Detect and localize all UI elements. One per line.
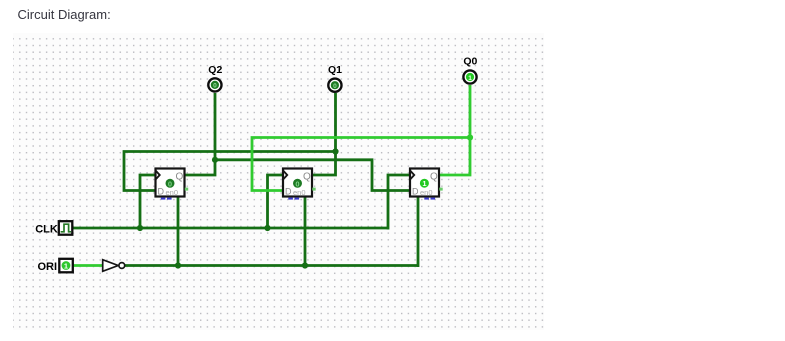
flip-flop U3 unconnected bottom pins: [424, 198, 435, 200]
wire FF3 Q to FF2 D: [252, 138, 470, 191]
circuit canvas background: [13, 33, 544, 330]
svg-text:ORI: ORI: [38, 261, 58, 273]
flip-flop U2 unconnected bottom pins: [288, 198, 299, 200]
svg-text:1: 1: [64, 262, 68, 271]
flip-flop U1 Qbar stub: [185, 188, 188, 191]
probe Q0: [463, 70, 476, 83]
probe Q0 label: [463, 56, 477, 68]
wire FF2 Q to FF1 D: [124, 152, 336, 191]
svg-text:D: D: [285, 187, 292, 197]
svg-text:Q1: Q1: [328, 64, 342, 76]
wire FF2 Q to Q1 probe: [313, 93, 336, 175]
svg-text:Q2: Q2: [208, 64, 222, 76]
svg-text:1: 1: [468, 75, 472, 82]
wire CLK horizontal: [73, 227, 388, 230]
svg-text:D: D: [412, 187, 419, 197]
wire NOT output horizontal: [125, 264, 419, 267]
svg-text:D: D: [158, 187, 165, 197]
wire FF3 Q to Q0 probe: [440, 85, 470, 175]
flip-flop U3 body: [410, 169, 439, 197]
wire ORI to FF2 bottom pin: [304, 197, 307, 266]
input CLK label: [35, 224, 58, 236]
wire ORI input to NOT gate: [73, 264, 102, 267]
wire FF1 Q to Q2 probe: [186, 93, 216, 175]
svg-text:en0: en0: [166, 188, 179, 197]
wire CLK to FF2 clock: [268, 175, 284, 228]
node ORI-FF2 junction: [302, 262, 308, 268]
input CLK: [59, 221, 73, 235]
svg-text:Q: Q: [303, 172, 311, 183]
svg-text:Circuit Diagram:: Circuit Diagram:: [18, 7, 111, 22]
flip-flop U1 body: [156, 169, 185, 197]
input ORI label: [38, 261, 58, 273]
svg-text:0: 0: [333, 83, 337, 90]
probe Q1: [328, 79, 341, 92]
wire CLK to FF1 clock: [140, 175, 156, 228]
flip-flop U1 unconnected bottom pins: [161, 198, 172, 200]
probe Q2 label: [208, 64, 222, 76]
svg-text:en0: en0: [420, 188, 433, 197]
node ORI-FF1 junction: [175, 262, 181, 268]
wire ORI to FF3 bottom pin: [417, 197, 420, 267]
node Q2 junction: [212, 157, 218, 163]
svg-text:en0: en0: [293, 188, 306, 197]
wire ORI to FF1 bottom pin: [177, 197, 180, 266]
svg-text:Q: Q: [176, 172, 184, 183]
NOT gate G1: [103, 260, 125, 272]
flip-flop U3 Qbar stub: [439, 188, 442, 191]
node Q0 junction: [467, 134, 473, 140]
wire FF1 Q to FF3 D: [215, 160, 410, 191]
probe Q1 label: [328, 64, 342, 76]
flip-flop U2 Qbar stub: [312, 188, 315, 191]
svg-text:Q0: Q0: [463, 56, 477, 68]
node CLK-FF2 junction: [264, 225, 270, 231]
input ORI: [59, 259, 73, 273]
wire CLK to FF3 clock: [388, 175, 410, 230]
node CLK-FF1 junction: [137, 225, 143, 231]
svg-text:Q: Q: [430, 172, 438, 183]
svg-text:0: 0: [213, 83, 217, 90]
node Q1 junction: [332, 148, 338, 154]
svg-text:CLK: CLK: [35, 224, 58, 236]
flip-flop U2 body: [283, 169, 312, 197]
probe Q2: [208, 78, 221, 91]
